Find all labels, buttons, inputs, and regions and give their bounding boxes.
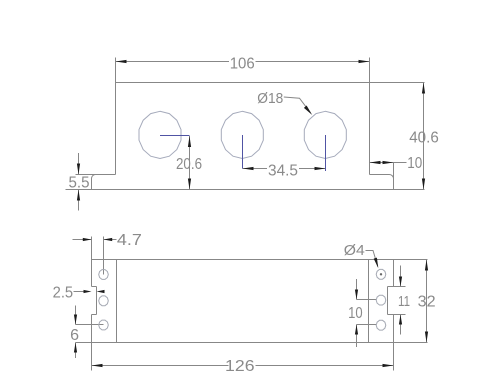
svg-text:10: 10 — [407, 155, 422, 172]
svg-text:106: 106 — [230, 56, 255, 73]
svg-text:126: 126 — [225, 358, 255, 375]
svg-text:20.6: 20.6 — [176, 156, 202, 173]
svg-text:6: 6 — [70, 327, 79, 344]
svg-text:Ø4: Ø4 — [344, 242, 365, 259]
svg-text:40.6: 40.6 — [409, 129, 439, 146]
svg-text:10: 10 — [348, 305, 363, 322]
svg-text:2.5: 2.5 — [53, 284, 74, 301]
svg-text:Ø18: Ø18 — [257, 90, 283, 107]
svg-text:5.5: 5.5 — [69, 174, 90, 191]
svg-text:4.7: 4.7 — [117, 232, 142, 249]
svg-text:11: 11 — [398, 293, 410, 310]
svg-text:34.5: 34.5 — [268, 163, 298, 180]
svg-text:32: 32 — [418, 294, 436, 311]
